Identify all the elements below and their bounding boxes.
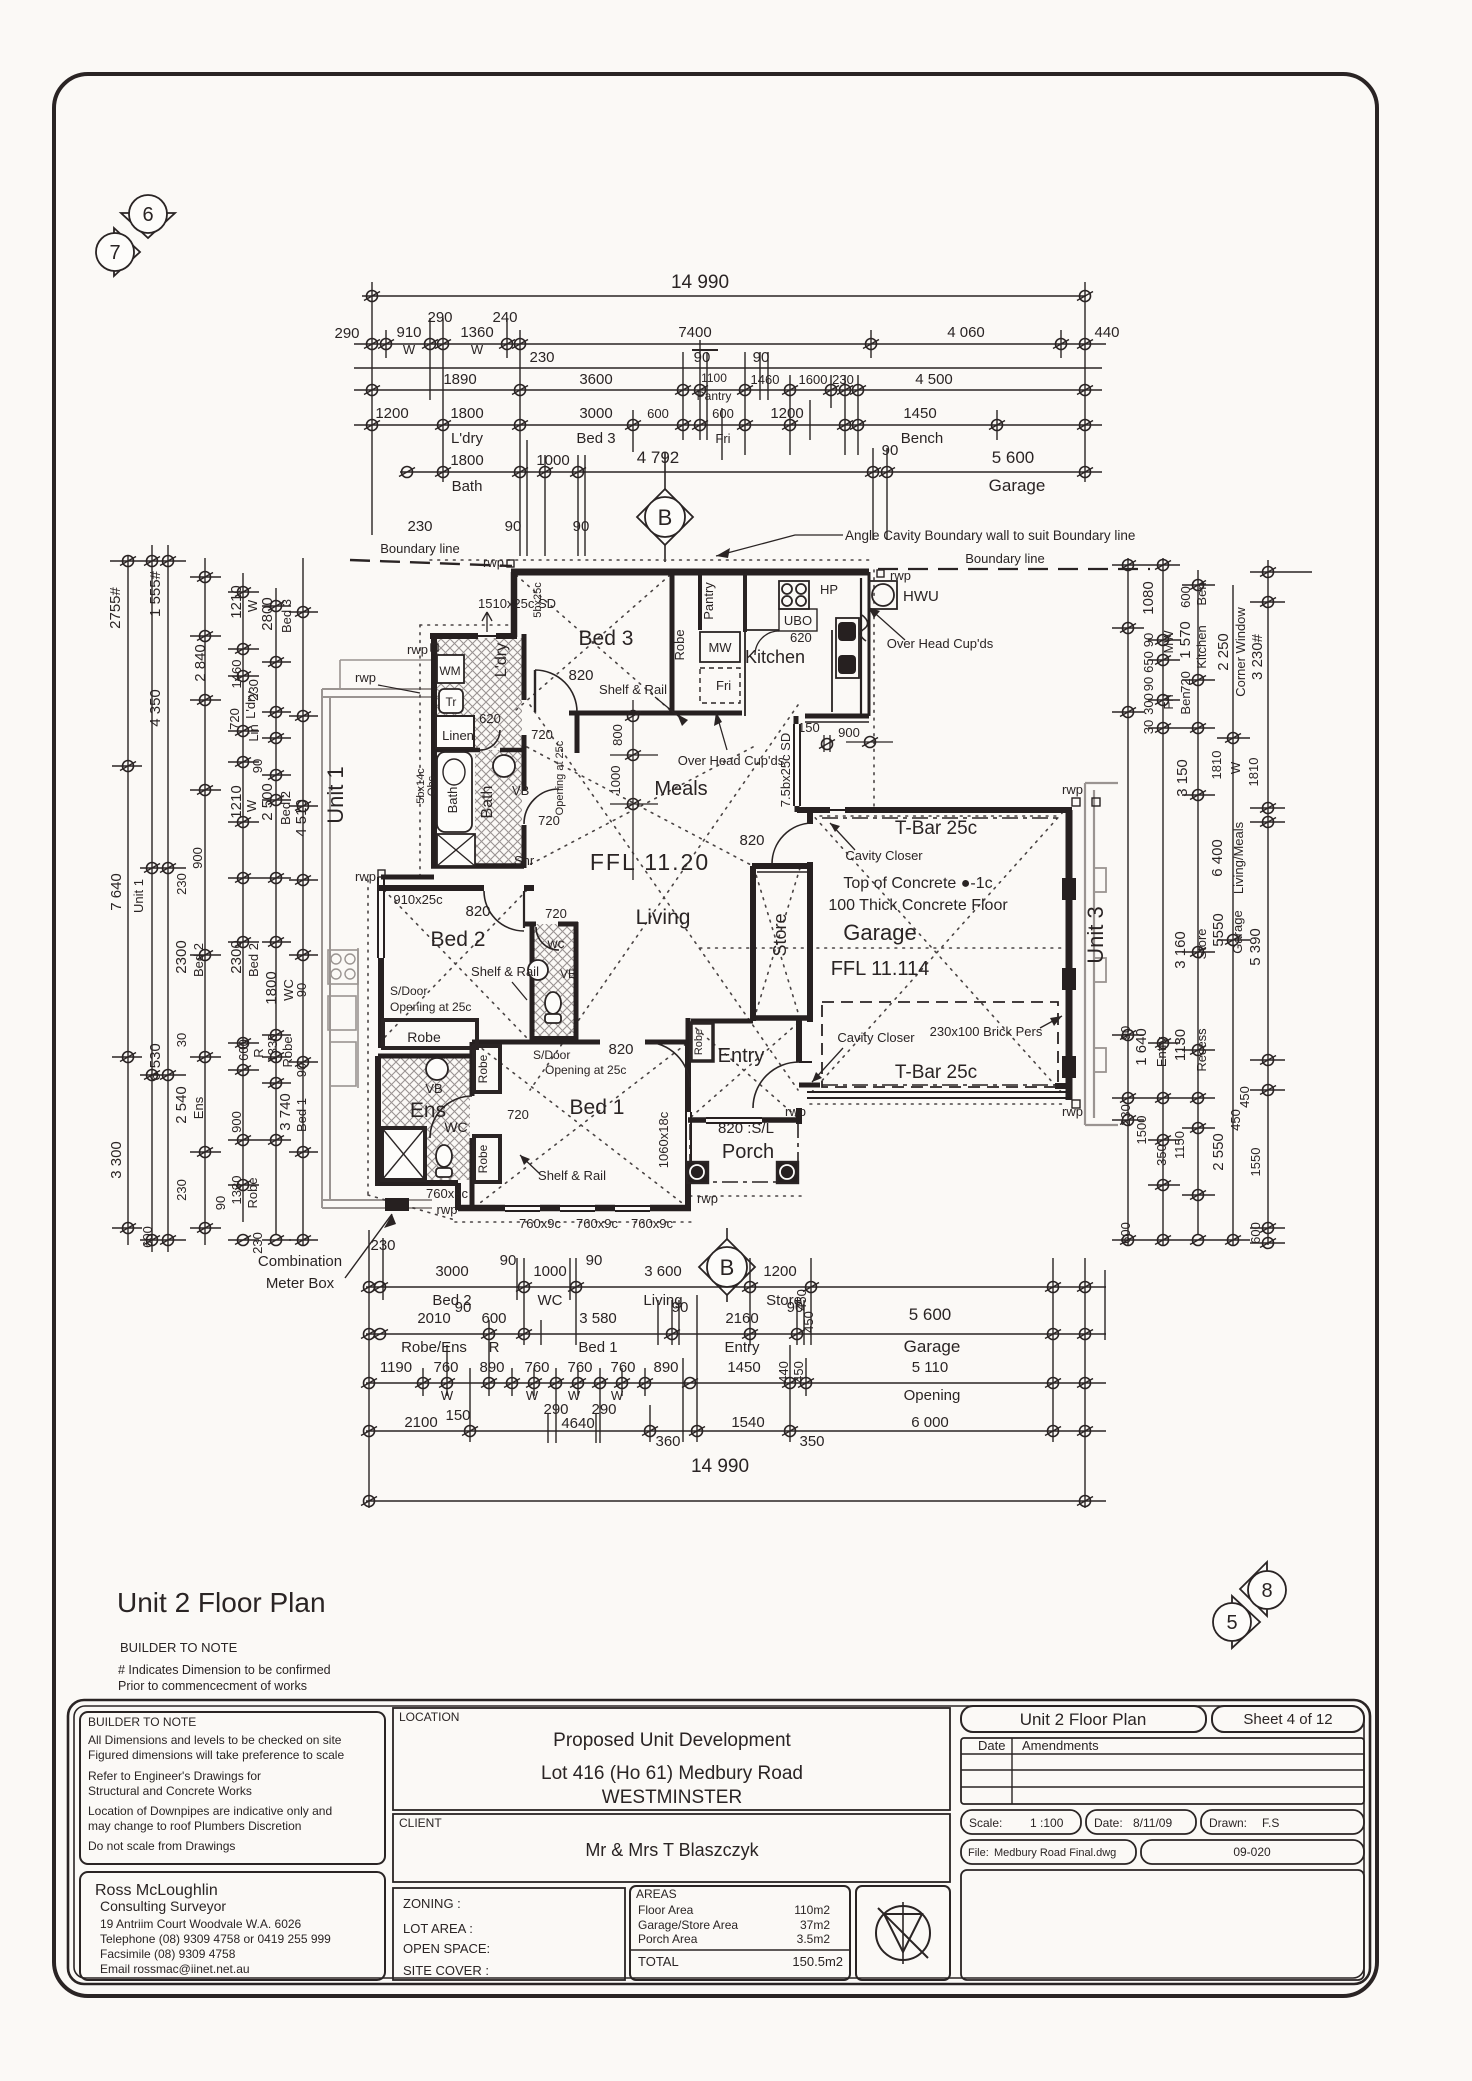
bottom dimension block bbox=[361, 1230, 1106, 1508]
svg-text:5bx25c: 5bx25c bbox=[532, 582, 544, 618]
svg-text:rwp: rwp bbox=[697, 1191, 718, 1206]
svg-text:600: 600 bbox=[712, 406, 734, 421]
svg-text:820: 820 bbox=[568, 667, 593, 684]
svg-text:2 540: 2 540 bbox=[173, 1086, 190, 1124]
svg-text:VB: VB bbox=[560, 967, 576, 981]
svg-text:wc: wc bbox=[546, 935, 564, 951]
svg-text:800: 800 bbox=[610, 724, 625, 746]
bath door bbox=[524, 789, 559, 824]
svg-text:2755#: 2755# bbox=[107, 586, 124, 628]
svg-text:R: R bbox=[489, 1339, 500, 1356]
svg-text:Over Head Cup'ds: Over Head Cup'ds bbox=[678, 753, 785, 768]
wc door bbox=[536, 927, 559, 950]
door arcs bbox=[430, 670, 812, 1138]
svg-text:6 530: 6 530 bbox=[147, 1043, 164, 1081]
ens bottom wall bbox=[378, 1180, 458, 1186]
living room bbox=[590, 832, 765, 929]
svg-text:7 640: 7 640 bbox=[108, 873, 125, 911]
rotated labels bbox=[1118, 581, 1266, 1244]
svg-text:7.5bx25c SD: 7.5bx25c SD bbox=[778, 733, 793, 807]
svg-text:3000: 3000 bbox=[435, 1263, 468, 1280]
svg-text:WC: WC bbox=[538, 1292, 563, 1309]
svg-text:W: W bbox=[526, 1388, 539, 1403]
window right wall below kitchen bbox=[794, 716, 799, 724]
svg-text:290: 290 bbox=[334, 325, 359, 342]
svg-text:620: 620 bbox=[790, 630, 812, 645]
bed3 door bbox=[535, 670, 577, 712]
bed2 top wall bbox=[378, 885, 484, 891]
svg-text:rwp: rwp bbox=[785, 1104, 806, 1119]
svg-text:Obs: Obs bbox=[426, 775, 438, 796]
svg-text:900: 900 bbox=[229, 1111, 244, 1133]
svg-text:Proposed Unit Development: Proposed Unit Development bbox=[553, 1730, 791, 1751]
svg-text:230x100 Brick Pers: 230x100 Brick Pers bbox=[930, 1024, 1043, 1039]
svg-text:Robe: Robe bbox=[245, 1177, 260, 1208]
svg-text:TOTAL: TOTAL bbox=[638, 1954, 679, 1969]
svg-text:# Indicates Dimension to be: # Indicates Dimension to be confirmed bbox=[118, 1663, 331, 1677]
svg-text:900: 900 bbox=[190, 847, 205, 869]
svg-text:1460: 1460 bbox=[751, 372, 780, 387]
svg-text:6 000: 6 000 bbox=[911, 1414, 949, 1431]
svg-text:VB: VB bbox=[425, 1081, 442, 1096]
svg-text:3 580: 3 580 bbox=[579, 1310, 617, 1327]
svg-text:820: 820 bbox=[739, 832, 764, 849]
svg-text:90: 90 bbox=[500, 1252, 517, 1269]
bed3 room bbox=[568, 627, 688, 726]
svg-text:Pantry: Pantry bbox=[697, 389, 732, 403]
store door bbox=[772, 823, 812, 864]
svg-text:240: 240 bbox=[492, 309, 517, 326]
main exterior walls bbox=[378, 572, 1076, 1211]
svg-text:1 640: 1 640 bbox=[1133, 1028, 1150, 1066]
ens left wall bbox=[375, 1056, 381, 1186]
svg-text:6: 6 bbox=[142, 204, 153, 226]
svg-text:Bed 2: Bed 2 bbox=[246, 943, 261, 977]
svg-text:HWU: HWU bbox=[903, 588, 939, 605]
HWU bbox=[869, 581, 897, 609]
svg-text:rwp: rwp bbox=[1062, 782, 1083, 797]
svg-text:Shelf & Rail: Shelf & Rail bbox=[538, 1168, 606, 1183]
bed1 bottom wall with windows bbox=[458, 1205, 505, 1212]
garage X bbox=[810, 812, 1063, 1094]
svg-text:rwp: rwp bbox=[437, 1202, 458, 1217]
svg-text:720: 720 bbox=[507, 1107, 529, 1122]
svg-text:1130: 1130 bbox=[1172, 1029, 1189, 1061]
wet area hatching bbox=[382, 638, 576, 1180]
svg-text:Living/Meals: Living/Meals bbox=[1231, 821, 1246, 894]
svg-text:230: 230 bbox=[174, 1179, 189, 1201]
svg-text:90: 90 bbox=[586, 1252, 603, 1269]
svg-text:Top of Concrete ●-1c: Top of Concrete ●-1c bbox=[843, 875, 992, 892]
svg-text:14 990: 14 990 bbox=[691, 1456, 749, 1477]
svg-text:Refer to Engineer's Drawings f: Refer to Engineer's Drawings for bbox=[88, 1769, 261, 1783]
svg-text:Lot 416 (Ho 61) Medbury Road: Lot 416 (Ho 61) Medbury Road bbox=[541, 1763, 803, 1784]
svg-text:720: 720 bbox=[1178, 671, 1193, 693]
svg-text:5550: 5550 bbox=[1210, 913, 1227, 946]
bed3 right wall / robe bbox=[670, 574, 675, 713]
svg-text:Robe: Robe bbox=[407, 1029, 441, 1045]
svg-text:Unit 1: Unit 1 bbox=[131, 879, 146, 913]
svg-text:90: 90 bbox=[213, 1196, 228, 1210]
svg-text:3.5m2: 3.5m2 bbox=[797, 1932, 831, 1946]
section symbol 8 bbox=[1240, 1562, 1286, 1616]
svg-text:1150: 1150 bbox=[1172, 1131, 1187, 1159]
svg-text:Opening at 25c: Opening at 25c bbox=[554, 740, 566, 815]
svg-text:90: 90 bbox=[694, 349, 711, 366]
svg-text:90: 90 bbox=[1141, 677, 1156, 691]
bath bottom + step to bed2 bbox=[431, 863, 524, 869]
svg-text:760: 760 bbox=[610, 1359, 635, 1376]
svg-text:450: 450 bbox=[801, 1311, 816, 1333]
svg-text:7: 7 bbox=[109, 242, 120, 264]
svg-text:W: W bbox=[245, 599, 260, 612]
svg-text:Sheet 4 of 12: Sheet 4 of 12 bbox=[1243, 1711, 1332, 1728]
section symbol 6 bbox=[121, 195, 175, 238]
svg-text:Bed 3: Bed 3 bbox=[579, 627, 634, 650]
garage top wall bbox=[797, 807, 830, 813]
ticks bbox=[1112, 564, 1180, 566]
svg-text:WC: WC bbox=[444, 1119, 467, 1135]
ens door bbox=[430, 1096, 472, 1138]
bed3 X bbox=[516, 575, 670, 710]
interior wall right of bath block bbox=[522, 634, 527, 700]
surveyor box bbox=[80, 1872, 385, 1980]
svg-text:1550: 1550 bbox=[1248, 1148, 1263, 1177]
ldry top wall bbox=[430, 633, 478, 639]
bed3 left wall upper bbox=[511, 572, 518, 637]
svg-text:90: 90 bbox=[250, 759, 265, 773]
svg-text:1330: 1330 bbox=[265, 1034, 280, 1063]
garage bbox=[812, 818, 1062, 1087]
svg-text:1060x18c: 1060x18c bbox=[656, 1111, 671, 1168]
svg-text:Location of Downpipes are indi: Location of Downpipes are indicative onl… bbox=[88, 1804, 332, 1818]
svg-text:1800: 1800 bbox=[450, 405, 483, 422]
svg-text:Do not scale from Drawings: Do not scale from Drawings bbox=[88, 1839, 235, 1853]
bench inner edge bbox=[831, 630, 833, 712]
svg-text:Email rossmac@iinet.net.au: Email rossmac@iinet.net.au bbox=[100, 1962, 250, 1976]
kitchen right wall corner window bbox=[868, 572, 871, 716]
svg-text:Robe: Robe bbox=[476, 1054, 490, 1083]
store X bbox=[754, 868, 800, 1019]
svg-text:890: 890 bbox=[479, 1359, 504, 1376]
bath fixtures bbox=[415, 740, 566, 868]
svg-text:Garage/Store Area: Garage/Store Area bbox=[638, 1918, 738, 1932]
bed3 bottom wall bbox=[569, 711, 742, 716]
wc/living wall lower bbox=[532, 1036, 576, 1040]
svg-text:150: 150 bbox=[798, 720, 820, 735]
svg-text:1460: 1460 bbox=[229, 660, 244, 689]
svg-text:L'dry: L'dry bbox=[243, 691, 258, 719]
svg-text:3 160: 3 160 bbox=[1172, 931, 1189, 969]
left dimension block bbox=[107, 545, 318, 1254]
svg-text:Kitchen: Kitchen bbox=[745, 647, 805, 667]
svg-text:Date: Date bbox=[978, 1738, 1005, 1753]
boundary line left bbox=[350, 541, 512, 566]
top dimension block bbox=[334, 272, 1119, 556]
laundry fixtures bbox=[436, 582, 556, 748]
svg-text:450: 450 bbox=[1237, 1086, 1252, 1108]
svg-text:FFL 11.114: FFL 11.114 bbox=[831, 958, 930, 980]
HP cooktop bbox=[779, 581, 809, 609]
bed1 top wall bbox=[472, 1040, 600, 1045]
builder note box bbox=[80, 1712, 385, 1864]
svg-text:1360: 1360 bbox=[460, 324, 493, 341]
svg-text:760: 760 bbox=[524, 1359, 549, 1376]
svg-text:S/Door: S/Door bbox=[390, 984, 427, 998]
svg-text:1800: 1800 bbox=[263, 971, 280, 1004]
svg-text:Bath: Bath bbox=[452, 478, 483, 495]
svg-text:90: 90 bbox=[882, 442, 899, 459]
svg-text:2300: 2300 bbox=[173, 940, 190, 973]
svg-text:Bench: Bench bbox=[901, 430, 944, 447]
svg-text:4640: 4640 bbox=[561, 1415, 594, 1432]
svg-text:Lin: Lin bbox=[246, 724, 261, 741]
svg-text:90: 90 bbox=[294, 983, 309, 997]
meals left wall stub bbox=[632, 875, 634, 880]
svg-text:90: 90 bbox=[573, 518, 590, 535]
svg-text:Ens: Ens bbox=[191, 1096, 206, 1119]
ens top wall bbox=[378, 1054, 472, 1059]
svg-text:LOCATION: LOCATION bbox=[399, 1710, 459, 1724]
svg-text:Consulting Surveyor: Consulting Surveyor bbox=[100, 1898, 226, 1914]
svg-text:600: 600 bbox=[1178, 586, 1193, 608]
entry X bbox=[690, 1023, 798, 1118]
svg-text:1080: 1080 bbox=[1140, 581, 1157, 614]
svg-text:Porch Area: Porch Area bbox=[638, 1932, 698, 1946]
svg-text:720: 720 bbox=[531, 727, 553, 742]
ens room bbox=[382, 1058, 529, 1180]
svg-text:MW: MW bbox=[1161, 630, 1176, 654]
svg-text:2010: 2010 bbox=[417, 1310, 450, 1327]
svg-text:rwp: rwp bbox=[355, 869, 376, 884]
svg-text:BUILDER TO NOTE: BUILDER TO NOTE bbox=[120, 1640, 238, 1655]
svg-text:6 400: 6 400 bbox=[1209, 839, 1226, 877]
svg-text:1540: 1540 bbox=[731, 1414, 764, 1431]
svg-text:600: 600 bbox=[481, 1310, 506, 1327]
svg-text:Robe/Ens: Robe/Ens bbox=[401, 1339, 467, 1356]
svg-text:4 350: 4 350 bbox=[147, 689, 164, 727]
svg-text:4 060: 4 060 bbox=[947, 324, 985, 341]
svg-text:230: 230 bbox=[250, 1232, 265, 1254]
svg-text:760x9c: 760x9c bbox=[631, 1216, 673, 1231]
svg-text:600: 600 bbox=[1118, 1222, 1133, 1244]
svg-text:Unit 2 Floor Plan: Unit 2 Floor Plan bbox=[1020, 1710, 1147, 1729]
bed1 room bbox=[426, 1041, 673, 1231]
bed2 X bbox=[384, 890, 527, 1038]
svg-text:rwp: rwp bbox=[483, 555, 504, 570]
svg-text:37m2: 37m2 bbox=[800, 1918, 830, 1932]
svg-text:3 150: 3 150 bbox=[1174, 759, 1191, 797]
svg-text:Drawn:: Drawn: bbox=[1209, 1816, 1247, 1830]
dim line row3 bbox=[354, 367, 1102, 369]
svg-text:W: W bbox=[568, 1388, 581, 1403]
svg-text:300: 300 bbox=[1141, 693, 1156, 715]
ceiling dotted diagonals bbox=[368, 560, 1066, 1222]
svg-text:1200: 1200 bbox=[375, 405, 408, 422]
svg-text:T-Bar 25c: T-Bar 25c bbox=[895, 1062, 977, 1083]
bed1 right wall bbox=[685, 1040, 691, 1112]
tick rows bbox=[110, 560, 186, 562]
svg-text:W: W bbox=[244, 799, 259, 812]
svg-text:Bed 3: Bed 3 bbox=[576, 430, 615, 447]
svg-text:1 570: 1 570 bbox=[1177, 621, 1194, 659]
svg-text:Robe: Robe bbox=[476, 1144, 490, 1173]
svg-text:100 Thick Concrete Floor: 100 Thick Concrete Floor bbox=[828, 897, 1008, 914]
svg-text:1450: 1450 bbox=[903, 405, 936, 422]
svg-text:WESTMINSTER: WESTMINSTER bbox=[602, 1787, 742, 1808]
svg-text:350: 350 bbox=[1154, 1144, 1169, 1166]
svg-text:B: B bbox=[658, 505, 673, 530]
svg-text:Bed 2: Bed 2 bbox=[191, 943, 206, 977]
svg-text:F.S: F.S bbox=[1262, 1816, 1279, 1830]
svg-text:All Dimensions and levels to b: All Dimensions and levels to be checked … bbox=[88, 1733, 342, 1747]
svg-text:Living: Living bbox=[636, 906, 691, 929]
svg-text:5 600: 5 600 bbox=[909, 1305, 952, 1324]
MW box bbox=[700, 632, 740, 662]
svg-text:90: 90 bbox=[753, 349, 770, 366]
svg-text:HP: HP bbox=[820, 582, 838, 597]
ldry door bbox=[480, 730, 500, 750]
dim line row6 bbox=[400, 471, 1102, 473]
unit 1 outline (grey) bbox=[322, 660, 432, 1208]
svg-text:Robe: Robe bbox=[280, 1036, 295, 1067]
svg-text:5 390: 5 390 bbox=[1247, 928, 1264, 966]
svg-text:760x9c: 760x9c bbox=[576, 1216, 618, 1231]
svg-text:Shelf & Rail: Shelf & Rail bbox=[599, 682, 667, 697]
store top wall bbox=[752, 863, 812, 869]
svg-text:2160: 2160 bbox=[725, 1310, 758, 1327]
svg-text:600: 600 bbox=[1248, 1222, 1263, 1244]
svg-text:230: 230 bbox=[832, 372, 854, 387]
combination meter box note bbox=[258, 1214, 396, 1292]
svg-text:VB: VB bbox=[512, 783, 529, 798]
north symbol box bbox=[856, 1886, 950, 1980]
wc walls bbox=[530, 922, 535, 1042]
svg-text:3000: 3000 bbox=[579, 405, 612, 422]
svg-text:W: W bbox=[1228, 761, 1243, 774]
dim line row4 bbox=[354, 389, 1102, 391]
svg-text:230: 230 bbox=[1118, 1104, 1133, 1126]
svg-text:Bed 1: Bed 1 bbox=[570, 1096, 625, 1119]
svg-text:Medbury Road Final.dwg: Medbury Road Final.dwg bbox=[994, 1847, 1116, 1859]
svg-text:3 230#: 3 230# bbox=[1249, 633, 1266, 680]
svg-text:1190: 1190 bbox=[380, 1359, 412, 1376]
svg-text:Combination: Combination bbox=[258, 1253, 342, 1270]
row1 bbox=[366, 1286, 1106, 1288]
svg-text:Store: Store bbox=[770, 913, 790, 956]
svg-text:620: 620 bbox=[479, 711, 501, 726]
svg-text:Bed 1: Bed 1 bbox=[578, 1339, 617, 1356]
svg-text:Floor Area: Floor Area bbox=[638, 1903, 694, 1917]
garage right wall bbox=[1066, 810, 1073, 1100]
svg-text:14 990: 14 990 bbox=[671, 272, 729, 293]
svg-text:19 Antriim Court Woodvale W.: 19 Antriim Court Woodvale W.A. 6026 bbox=[100, 1917, 302, 1931]
amendments table bbox=[961, 1738, 1364, 1804]
meals room bbox=[608, 700, 708, 880]
row3 bbox=[366, 1382, 1106, 1384]
svg-text:820: 820 bbox=[465, 903, 490, 920]
svg-text:rwp: rwp bbox=[407, 642, 428, 657]
svg-text:1 :100: 1 :100 bbox=[1030, 1816, 1064, 1830]
svg-text:Linen: Linen bbox=[442, 728, 474, 743]
svg-text:1510x25c SD: 1510x25c SD bbox=[478, 596, 556, 611]
svg-text:Bath: Bath bbox=[479, 786, 496, 819]
svg-text:Cavity Closer: Cavity Closer bbox=[837, 1030, 915, 1045]
location box bbox=[393, 1708, 950, 1810]
svg-text:Ben: Ben bbox=[1178, 691, 1193, 714]
svg-text:Corner Window: Corner Window bbox=[1233, 607, 1248, 697]
row4 bbox=[366, 1430, 1106, 1432]
svg-text:Tr: Tr bbox=[446, 695, 457, 709]
svg-text:Bed 2: Bed 2 bbox=[431, 928, 486, 951]
svg-text:360: 360 bbox=[655, 1433, 680, 1450]
svg-text:3 300: 3 300 bbox=[108, 1141, 125, 1179]
svg-text:820: 820 bbox=[608, 1041, 633, 1058]
svg-text:720: 720 bbox=[545, 906, 567, 921]
svg-text:09-020: 09-020 bbox=[1233, 1845, 1271, 1859]
ldry/bath divider bbox=[434, 748, 480, 753]
store room bbox=[770, 913, 790, 956]
svg-text:1330: 1330 bbox=[229, 1176, 244, 1205]
svg-text:8/11/09: 8/11/09 bbox=[1133, 1816, 1172, 1830]
svg-text:450: 450 bbox=[791, 1361, 806, 1383]
svg-text:600: 600 bbox=[236, 1039, 251, 1061]
svg-text:Telephone (08) 9309 4758 or: Telephone (08) 9309 4758 or 0419 255 999 bbox=[100, 1932, 331, 1946]
svg-text:230: 230 bbox=[174, 873, 189, 895]
svg-text:440: 440 bbox=[776, 1361, 791, 1383]
svg-text:5 110: 5 110 bbox=[912, 1359, 948, 1376]
svg-text:Angle Cavity Boundary wall to: Angle Cavity Boundary wall to suit Bound… bbox=[845, 528, 1135, 543]
svg-text:230: 230 bbox=[407, 518, 432, 535]
svg-text:BUILDER TO NOTE: BUILDER TO NOTE bbox=[88, 1715, 196, 1729]
unit 3 outline (grey) bbox=[1085, 783, 1118, 1125]
svg-text:Fri: Fri bbox=[1161, 694, 1176, 709]
svg-text:600: 600 bbox=[647, 406, 669, 421]
dim line row5 bbox=[354, 424, 1102, 426]
svg-text:Bed 2: Bed 2 bbox=[278, 791, 293, 825]
svg-text:W: W bbox=[403, 342, 416, 357]
svg-text:1000: 1000 bbox=[536, 452, 569, 469]
svg-text:90: 90 bbox=[1141, 633, 1156, 647]
svg-text:450: 450 bbox=[1228, 1109, 1243, 1131]
svg-text:Ens: Ens bbox=[410, 1099, 446, 1122]
svg-text:760: 760 bbox=[567, 1359, 592, 1376]
svg-text:ZONING :: ZONING : bbox=[403, 1896, 461, 1911]
svg-text:Pantry: Pantry bbox=[701, 582, 716, 620]
svg-text:910x25c: 910x25c bbox=[393, 892, 443, 907]
svg-text:760: 760 bbox=[433, 1359, 458, 1376]
ens/bed1 divider bbox=[470, 1042, 475, 1096]
svg-text:Bed 3: Bed 3 bbox=[279, 599, 294, 633]
svg-text:Boundary line: Boundary line bbox=[380, 541, 460, 556]
svg-text:MW: MW bbox=[708, 640, 732, 655]
svg-text:1200: 1200 bbox=[770, 405, 803, 422]
svg-text:90: 90 bbox=[672, 1299, 689, 1316]
svg-text:1100: 1100 bbox=[701, 371, 727, 385]
empty box bbox=[961, 1870, 1364, 1980]
svg-text:Ben: Ben bbox=[1194, 582, 1209, 605]
svg-text:UBO: UBO bbox=[784, 613, 812, 628]
svg-text:Bath: Bath bbox=[445, 787, 460, 814]
svg-text:Garage: Garage bbox=[843, 920, 916, 945]
vertical extension lines bbox=[371, 282, 373, 535]
areas box bbox=[630, 1886, 850, 1980]
svg-text:WM: WM bbox=[439, 664, 460, 678]
svg-text:Opening: Opening bbox=[904, 1387, 961, 1404]
angle cavity note bbox=[716, 528, 1135, 558]
sink bbox=[836, 618, 859, 678]
verticals bbox=[368, 1230, 370, 1508]
